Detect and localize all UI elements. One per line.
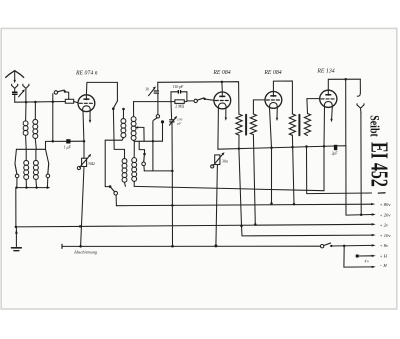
node rail at R5 bbox=[291, 146, 294, 149]
resistor R3 anode coupling bbox=[236, 114, 242, 135]
tube4 filament arrow lead bbox=[330, 107, 332, 122]
node +80v at C4 line bbox=[171, 204, 174, 207]
wire L3a bottom to left rail bbox=[105, 140, 122, 186]
node +80v at R5 bbox=[293, 203, 296, 206]
wire tube3 filament to +80v bbox=[271, 148, 273, 204]
contact stud near S7 bbox=[161, 120, 164, 141]
node y171 junction bbox=[171, 170, 174, 173]
antenna bbox=[6, 71, 24, 84]
capacitor C 1uF bbox=[66, 139, 70, 143]
wire grid line L3b to RC frame bbox=[134, 101, 172, 103]
svg-text:EI 452: EI 452 bbox=[365, 142, 391, 187]
svg-text:RE 084: RE 084 bbox=[263, 69, 281, 76]
variable capacitor C4 150pF bbox=[169, 102, 177, 171]
terminal arrow +80v bbox=[371, 203, 375, 205]
wire tube4 filament to heater rail bbox=[323, 146, 325, 190]
svg-text:Seibt: Seibt bbox=[367, 115, 380, 137]
switch S2 box1 left bbox=[15, 149, 19, 187]
wire band box1 top bbox=[16, 148, 45, 150]
coil L2b box1 right bbox=[33, 149, 38, 187]
node ant-coil-right bbox=[34, 101, 37, 104]
terminal minus bbox=[378, 192, 385, 194]
wire heater +4v bus left part bbox=[62, 245, 320, 247]
wire y171 link bbox=[144, 170, 172, 172]
terminal arrow -H bbox=[372, 266, 376, 268]
resistor R2 2MOhm bbox=[171, 100, 187, 104]
tube3 filament arrow lead bbox=[276, 108, 278, 121]
wire box1 to ground bus bbox=[15, 188, 17, 227]
node x52.8 on 1uF line bbox=[52, 140, 55, 143]
loudspeaker plug bottom fork bbox=[357, 104, 364, 113]
switch S9 heater bbox=[320, 243, 332, 248]
switch S5 box2 bottom bbox=[109, 185, 118, 205]
terminal labels column bbox=[379, 202, 391, 268]
coil L1a antenna primary bbox=[23, 102, 28, 149]
potentiometer P1 bbox=[77, 141, 91, 246]
switch S4 tube1 anode band switch bbox=[112, 101, 125, 111]
switch S3 box1 right bbox=[46, 149, 50, 187]
wire +10v bus bbox=[242, 234, 372, 237]
tube V2 RE084 bbox=[214, 92, 231, 109]
resistor grid stopper R1 bbox=[65, 99, 73, 103]
resistor R5 anode coupling 2 bbox=[289, 114, 295, 135]
terminal arrow +8v bbox=[372, 244, 376, 246]
node heater at C4 line bbox=[171, 245, 174, 248]
switch S7 below C2 bbox=[153, 115, 160, 171]
resistor R6 grid leak 2 bbox=[304, 114, 310, 136]
wire +20v feed from anode rail bbox=[345, 79, 347, 215]
wire tube3 anode up bbox=[273, 81, 292, 114]
wire rail y148 bbox=[218, 146, 346, 149]
node rail at tube4 filament bbox=[323, 145, 326, 148]
wire speaker return down bbox=[360, 112, 362, 214]
svg-text:+ H: + H bbox=[380, 254, 388, 259]
switch S8 tube2 grid bbox=[187, 98, 214, 103]
coil L1b antenna secondary bbox=[33, 102, 38, 149]
coil L4b lower right bbox=[132, 158, 137, 187]
grid combo frame C3 110pF bbox=[171, 90, 187, 102]
loudspeaker plug top hook bbox=[357, 79, 360, 96]
wire tube2 anode up bbox=[221, 82, 223, 92]
terminal arrow +20v bbox=[372, 213, 376, 215]
node x84 on 1uF line bbox=[83, 140, 86, 143]
wire 1uF to tube1 filament node bbox=[71, 140, 84, 142]
switch S1 (tube1 grid) bbox=[54, 90, 68, 99]
wire R3 node to +10v corner bbox=[239, 149, 242, 236]
wire tube1 anode up bbox=[86, 82, 117, 100]
wire heater bus right part bbox=[332, 244, 372, 247]
ground symbol bbox=[12, 227, 22, 251]
terminal arrow +2v bbox=[372, 223, 376, 225]
wire antenna input bus y102 bbox=[15, 101, 66, 104]
node heater at -H branch bbox=[343, 245, 346, 248]
svg-text:4 v: 4 v bbox=[365, 259, 370, 263]
tube1 filament arrow lead bbox=[89, 111, 91, 123]
svg-text:30a: 30a bbox=[222, 159, 228, 164]
wire tube2 filament left down bbox=[217, 108, 220, 149]
node tube4 anode rail bbox=[344, 78, 347, 81]
capacitor C5 2uF bbox=[334, 145, 337, 150]
capacitor C7 coupling bar 2 bbox=[298, 115, 300, 135]
wire band box1 bottom bbox=[16, 187, 49, 189]
svg-text:pF: pF bbox=[176, 121, 182, 125]
wire tube2 anode rail y82 bbox=[158, 82, 239, 114]
antenna trimmer capacitor bbox=[12, 89, 25, 102]
svg-text:2 MΩ: 2 MΩ bbox=[175, 105, 184, 109]
potentiometer P2 bbox=[211, 152, 225, 246]
svg-text:+ 20v: + 20v bbox=[380, 213, 392, 218]
node heater at P1 bbox=[79, 245, 82, 248]
coil L3b interstage secondary bbox=[131, 102, 136, 142]
switch S6 box2 right bbox=[139, 141, 146, 171]
node heater at P2 bbox=[214, 244, 217, 247]
node rail at R3 bbox=[238, 147, 241, 150]
wire L4b top feed bbox=[133, 141, 135, 157]
tube V3 RE084 bbox=[265, 92, 282, 109]
svg-text:RE 134: RE 134 bbox=[316, 67, 334, 74]
wire heater rail y188 bbox=[134, 186, 324, 190]
node grid-down-wire bbox=[52, 101, 55, 104]
node box1 bottom dots bbox=[15, 186, 48, 188]
wire 1uF branch left corner bbox=[46, 141, 67, 149]
wire R6 top to tube4 grid bbox=[307, 99, 320, 114]
svg-text:30Ω: 30Ω bbox=[88, 161, 95, 166]
coil L3a interstage primary bbox=[121, 110, 126, 140]
wire tube4 filament left down bbox=[323, 107, 326, 146]
svg-text:RE 084: RE 084 bbox=[212, 69, 230, 76]
node tube2 anode tap bbox=[221, 81, 224, 84]
wire tube3 filament left down bbox=[270, 108, 272, 148]
svg-text:Abschirmung: Abschirmung bbox=[73, 250, 98, 255]
terminal +H plug bbox=[356, 255, 359, 258]
tube V1 RE074n bbox=[78, 95, 95, 112]
node +20v at speaker return bbox=[360, 214, 363, 217]
svg-text:30: 30 bbox=[145, 88, 149, 92]
wire R4 bottom to +2v bbox=[253, 135, 255, 225]
capacitor C6 coupling bar bbox=[245, 115, 247, 135]
wire tube1 filament left down bbox=[82, 111, 85, 141]
node minus at rail bbox=[305, 145, 308, 148]
wire R4 top to tube3 grid bbox=[253, 100, 265, 114]
node rail at tube3 filament bbox=[270, 146, 273, 149]
node S7 wire on y141 bbox=[152, 140, 154, 142]
wire tuned node y141 bbox=[134, 140, 162, 142]
tube V4 RE134 bbox=[320, 90, 337, 107]
wire -H branch bbox=[344, 246, 372, 267]
svg-text:+ 10v: + 10v bbox=[380, 233, 392, 238]
svg-text:2μF: 2μF bbox=[332, 152, 339, 156]
node +80v at tube3 filament bbox=[270, 202, 273, 205]
wire R5 bottom to +80v bbox=[292, 135, 294, 204]
terminal arrow +H bbox=[372, 255, 376, 257]
coil L2a box1 left bbox=[24, 149, 29, 187]
wire minus line bbox=[307, 146, 372, 193]
wire R1 to tube1 grid bbox=[74, 101, 78, 103]
wire grid line down x52.8 bbox=[52, 94, 54, 142]
svg-text:RE 074 n: RE 074 n bbox=[75, 70, 98, 77]
tick heater bus left end bbox=[61, 244, 63, 248]
variable capacitor C2 (anode) bbox=[149, 82, 160, 114]
wire tube4 anode up and right bbox=[328, 79, 360, 90]
coil L4a lower left bbox=[122, 159, 127, 187]
tube2 filament arrow lead bbox=[225, 108, 227, 120]
wire +80v bus bbox=[116, 204, 371, 206]
antenna plug fork 2 bbox=[23, 84, 29, 102]
node +2v at R3 branch bbox=[240, 225, 243, 228]
terminal arrow +10v bbox=[372, 234, 376, 236]
svg-text:+ 80v: + 80v bbox=[380, 202, 392, 207]
wire +20v bus bbox=[346, 214, 372, 217]
svg-text:1 μF: 1 μF bbox=[64, 145, 72, 149]
svg-text:+ 2v: + 2v bbox=[380, 222, 390, 227]
node +2v at ground bbox=[15, 226, 18, 229]
node ant-coil-left bbox=[25, 101, 28, 104]
resistor R4 grid leak bbox=[250, 114, 256, 135]
wire +2v bus bbox=[16, 224, 372, 227]
coil L3b tap arrow bbox=[135, 126, 144, 141]
svg-text:− H: − H bbox=[379, 263, 387, 268]
svg-text:+ 8v: + 8v bbox=[380, 243, 390, 248]
node +2v at P1 bbox=[79, 225, 82, 228]
svg-text:110 pF: 110 pF bbox=[173, 85, 184, 89]
wire C4 line lower section bbox=[171, 171, 173, 246]
wire S4 throw A down to lower coil bbox=[113, 110, 124, 158]
wire +H stub bbox=[359, 255, 372, 257]
antenna plug fork 1 bbox=[12, 84, 18, 91]
wire R3 bottom down bbox=[238, 135, 240, 149]
node +2v at R4 bbox=[254, 223, 256, 226]
